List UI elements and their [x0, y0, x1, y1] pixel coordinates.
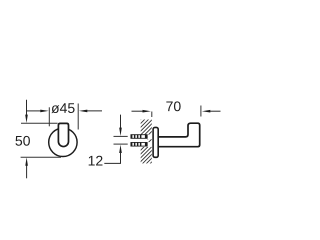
dim o45 left leader + arrow: [27, 110, 43, 112]
dim text o45: [51, 103, 74, 113]
dim text 50: [15, 136, 29, 146]
screw 2 threaded anchor: [131, 142, 147, 146]
dim 12 bottom leader + up arrow: [119, 145, 122, 153]
dim 70 left extension line: [151, 112, 153, 118]
front view: circular backplate: [49, 128, 77, 156]
dim 50 bottom extension line: [21, 156, 61, 158]
dim 70 right arrow + tail: [208, 110, 221, 112]
hook body (side profile): [158, 123, 200, 147]
dim o45 right extension line: [77, 104, 79, 130]
screw 1 threaded anchor: [131, 134, 147, 138]
dim 50 bottom up arrow + tail: [26, 165, 28, 179]
front view: hook post (U shape): [58, 123, 68, 146]
wall hatching between screws: [148, 139, 152, 142]
dim 12 top leader + down arrow: [120, 115, 122, 129]
wall plate (side view): [153, 127, 158, 157]
dim 12 upper extension line (screw 1 axis): [114, 135, 128, 137]
dim o45 right arrow + tail: [86, 110, 103, 112]
dim text 12: [89, 156, 103, 166]
dim 12 lower extension line (screw 2 axis): [114, 143, 128, 145]
dim 50 vertical leader top + down arrow: [26, 100, 28, 116]
wall hatching upper band: [141, 120, 152, 135]
dim text 70: [166, 101, 180, 111]
dim 70 right extension line: [200, 106, 202, 117]
wall hatching lower band: [141, 147, 152, 164]
dim o45 left extension line: [48, 107, 50, 126]
dim 70 left arrow + tail: [132, 110, 145, 112]
dim 50 top extension line: [21, 122, 58, 124]
